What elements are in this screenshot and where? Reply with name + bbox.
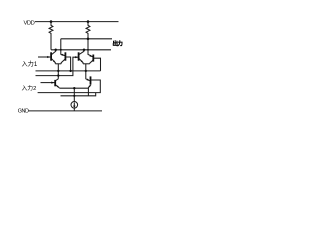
svg-text:入力1: 入力1 (22, 60, 38, 68)
svg-text:VDD: VDD (24, 21, 35, 27)
svg-text:入力2: 入力2 (22, 84, 37, 92)
svg-text:出力: 出力 (113, 39, 123, 47)
svg-text:GND: GND (18, 109, 29, 115)
